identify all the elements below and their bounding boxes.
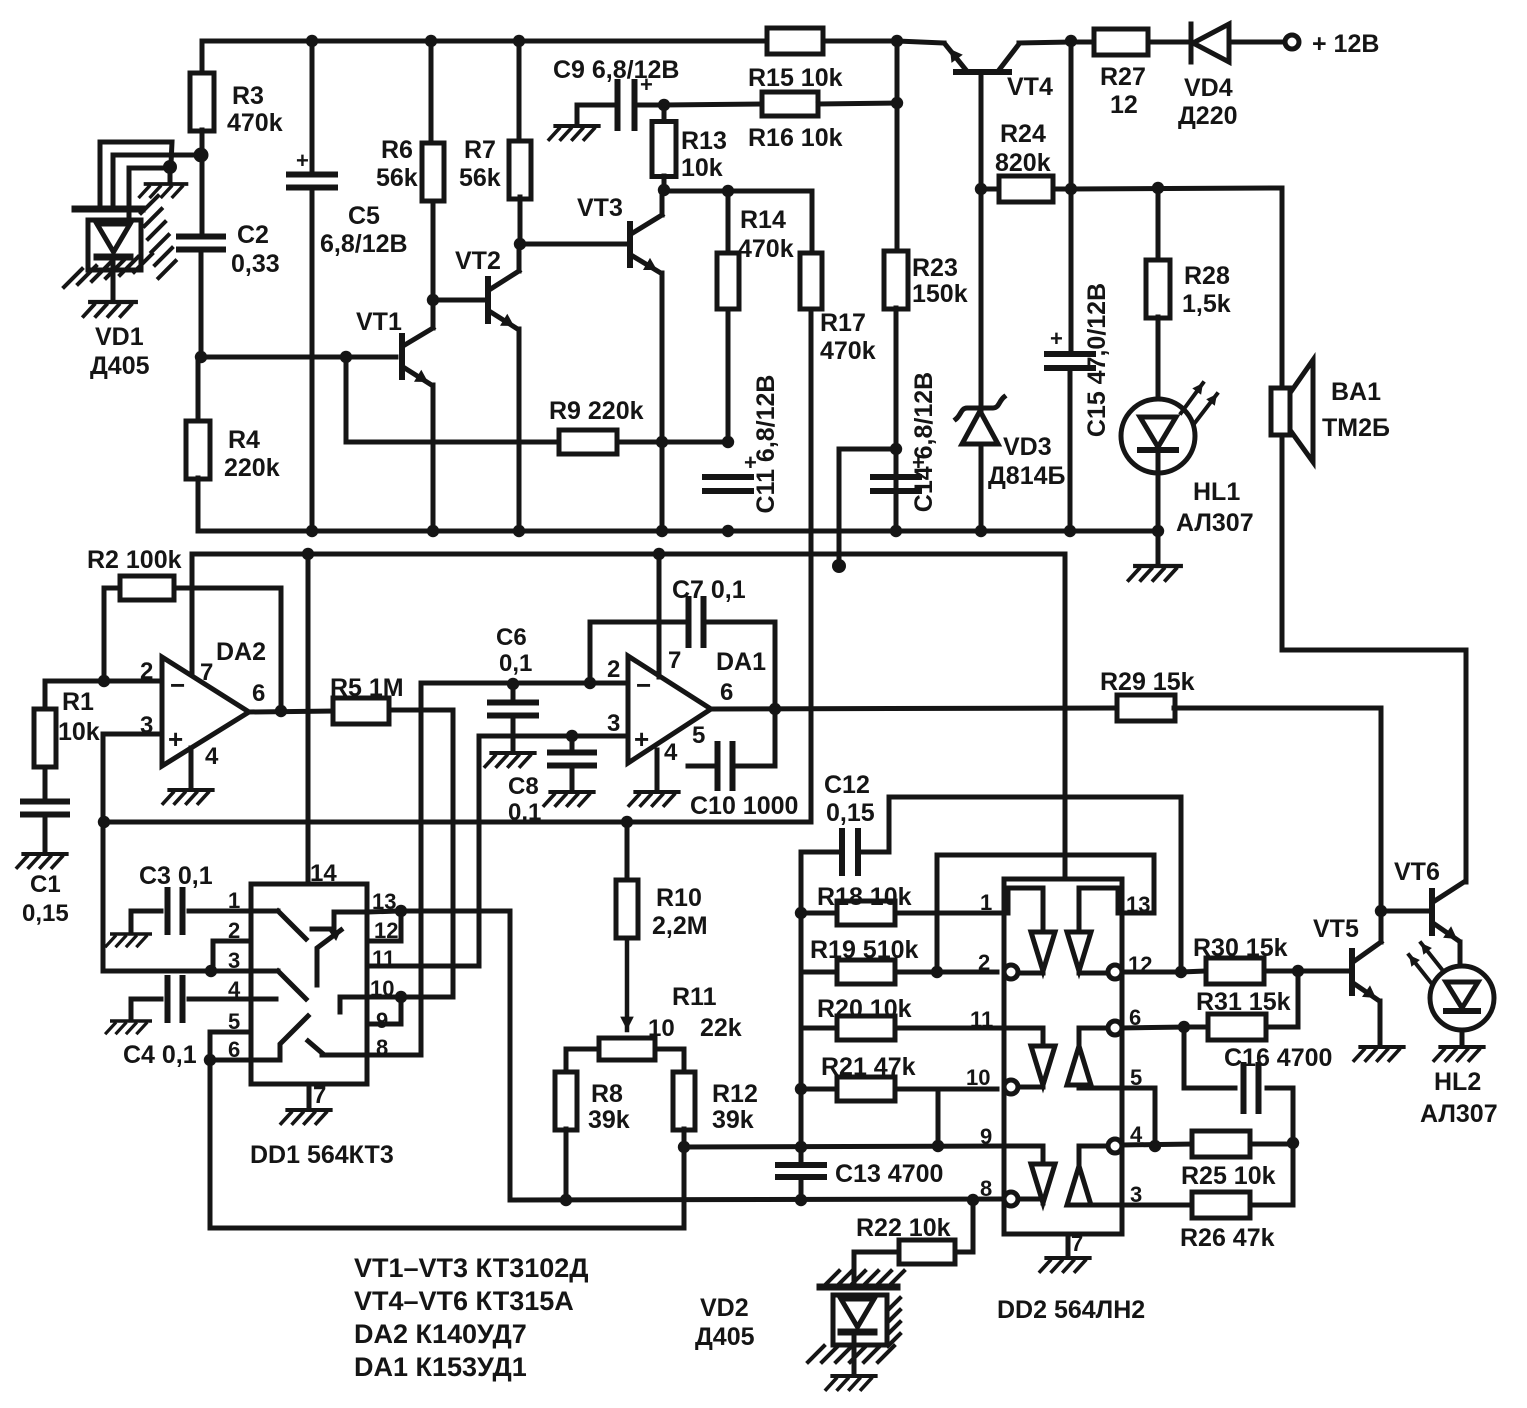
shield bracket VD1 outer <box>100 142 172 207</box>
ground C3 <box>106 934 150 946</box>
svg-text:C12: C12 <box>824 771 870 799</box>
bubble pin6 DD2 <box>1108 1021 1122 1035</box>
wire DD1 pin13 out <box>367 911 399 912</box>
svg-text:R20 10k: R20 10k <box>817 995 912 1023</box>
svg-text:+ 12В: + 12В <box>1312 30 1379 58</box>
svg-text:VD3: VD3 <box>1003 433 1052 461</box>
svg-text:HL2: HL2 <box>1434 1068 1481 1096</box>
capacitor C7 <box>590 622 684 683</box>
wire R13 to VT3 collector <box>662 176 667 190</box>
wire DD1 pin5 jog <box>210 1032 251 1059</box>
resistor R1 <box>43 681 48 709</box>
svg-text:DA1: DA1 <box>716 648 766 676</box>
wire R31 to VT5 base node <box>1296 971 1301 1027</box>
capacitor C12 <box>839 831 845 873</box>
wire col480 down to DD1 pin 11 <box>477 736 482 966</box>
wire C9 to R13 top <box>635 103 664 108</box>
bubble pin8 DD2 <box>1004 1192 1018 1206</box>
wire top rail R15 to VT4 <box>824 39 897 44</box>
svg-text:0,15: 0,15 <box>826 799 875 827</box>
svg-text:DD1 564КТ3: DD1 564КТ3 <box>250 1141 394 1169</box>
wire VD4 to +12V terminal <box>1229 40 1284 45</box>
junction C6 top <box>507 678 519 690</box>
ground VD1 shield <box>140 184 187 197</box>
junction R10 top <box>621 816 633 828</box>
svg-text:C6: C6 <box>496 624 527 651</box>
transistor VT6 <box>1429 891 1435 933</box>
svg-text:2: 2 <box>978 950 990 975</box>
svg-text:C10 1000: C10 1000 <box>690 792 798 820</box>
junction R21 left <box>795 1083 807 1095</box>
svg-text:C13 4700: C13 4700 <box>835 1160 943 1188</box>
svg-text:10k: 10k <box>58 718 100 746</box>
wire VT3 emitter down <box>660 273 665 531</box>
wire DD1 pin8 out <box>367 1053 421 1058</box>
resistor R19 <box>801 970 837 975</box>
junction bus VT3 <box>656 525 668 537</box>
resistor R20 <box>801 1026 837 1031</box>
svg-text:10k: 10k <box>681 154 723 182</box>
svg-text:4: 4 <box>228 977 241 1002</box>
svg-text:R27: R27 <box>1100 63 1146 91</box>
wire pins13 12 to lower bus <box>401 911 510 1200</box>
wire R4 to ground bus <box>196 478 201 531</box>
wire DD1 pin14 <box>306 822 311 884</box>
capacitor C11 (electrolytic) <box>705 474 751 480</box>
svg-text:VD2: VD2 <box>700 1294 749 1322</box>
svg-text:2: 2 <box>607 656 620 683</box>
wire DA1 pin3 input <box>479 734 628 739</box>
svg-text:R17: R17 <box>820 309 866 337</box>
wire DA2 pin3 input <box>103 732 162 737</box>
svg-text:C11 6,8/12В: C11 6,8/12В <box>752 375 780 514</box>
wire DD1 pin11 out <box>367 964 479 969</box>
wire speaker top <box>1280 188 1285 388</box>
junction VT3 emitter R9 <box>656 436 668 448</box>
capacitor C10 <box>688 764 713 769</box>
wire R14 to C11 <box>726 309 731 442</box>
junction DA2 output <box>275 705 287 717</box>
svg-text:АЛ307: АЛ307 <box>1176 509 1254 537</box>
junction rail R6 <box>425 35 437 47</box>
svg-text:АЛ307: АЛ307 <box>1420 1100 1498 1128</box>
inverter 6 DD2 (up) <box>1067 1166 1091 1205</box>
resistor R30 <box>1181 971 1206 972</box>
potentiometer R11 <box>599 1038 655 1060</box>
wire R12 node to DD2 pin9 <box>684 1146 1004 1147</box>
svg-text:470k: 470k <box>227 109 283 137</box>
svg-text:1,5k: 1,5k <box>1182 290 1231 318</box>
junction C13 lower bus <box>795 1194 807 1206</box>
resistor R17 <box>810 191 815 253</box>
wire 188 node to speaker <box>1071 188 1282 189</box>
wire DD1 pin9 jog <box>367 997 401 1024</box>
resistor R3 <box>200 41 205 74</box>
junction rail R7 <box>513 35 525 47</box>
junction C8 top <box>566 730 578 742</box>
svg-text:R23: R23 <box>912 254 958 282</box>
wire VT2 base <box>433 298 488 303</box>
zener diode VD3 <box>962 411 998 444</box>
ground C4 <box>106 1021 150 1033</box>
resistor R18 <box>801 911 837 916</box>
junction top rail R23 column <box>891 35 903 47</box>
ground VD2 <box>826 1376 876 1390</box>
svg-text:VT4: VT4 <box>1007 73 1053 101</box>
wire C2 to base node <box>199 250 204 356</box>
svg-text:C9 6,8/12В: C9 6,8/12В <box>553 56 679 84</box>
wire col938 up <box>936 1089 941 1146</box>
svg-text:4: 4 <box>205 743 219 770</box>
svg-text:8: 8 <box>980 1176 992 1201</box>
svg-text:7: 7 <box>668 647 681 674</box>
diode VD4 <box>1189 24 1194 62</box>
wire HL1 to ground bus <box>1156 473 1161 531</box>
junction C13 top <box>795 1141 807 1153</box>
resistor R13 <box>662 105 667 122</box>
svg-text:VT1–VT3 КТ3102Д: VT1–VT3 КТ3102Д <box>354 1253 589 1283</box>
wire VT6 emitter to HL2 <box>1458 942 1463 966</box>
wire VT3 collector node to R17 <box>664 189 812 194</box>
svg-text:C3 0,1: C3 0,1 <box>139 862 213 890</box>
svg-text:6: 6 <box>252 680 265 707</box>
wire R5 node up to DA1 pin2 wire <box>421 683 511 710</box>
resistor R24 <box>981 187 999 192</box>
wire R29 to VT5 collector <box>1174 708 1381 911</box>
svg-text:C1: C1 <box>30 871 61 898</box>
wire col421 down to DD1 pin 8 <box>419 710 424 1055</box>
wire R5 right node <box>389 708 453 713</box>
svg-text:C5: C5 <box>348 202 380 230</box>
svg-text:9: 9 <box>980 1124 992 1149</box>
wire DA2 pin4 ground <box>189 748 194 786</box>
svg-text:R22 10k: R22 10k <box>856 1214 951 1242</box>
photodiode VD2 <box>820 1284 897 1291</box>
junction VT5 base node <box>1292 965 1304 977</box>
junction DD1 pins 10 9 <box>395 991 407 1003</box>
IC DD1 box <box>251 884 367 1084</box>
svg-text:R29 15k: R29 15k <box>1100 668 1195 696</box>
svg-text:5: 5 <box>228 1009 240 1034</box>
resistor R28 <box>1156 188 1161 261</box>
svg-text:Д405: Д405 <box>695 1323 755 1351</box>
bubble pin12 DD2 <box>1108 965 1122 979</box>
terminal +12V <box>1285 35 1299 49</box>
wire DA2 pin7 column <box>190 588 195 676</box>
svg-text:0,1: 0,1 <box>499 650 532 677</box>
junction VT1 collector VT2 base <box>427 294 439 306</box>
capacitor C1 <box>23 799 67 805</box>
svg-text:VD1: VD1 <box>95 323 144 351</box>
capacitor C5 (electrolytic) <box>310 41 315 174</box>
wire VT5 emitter ground <box>1378 1001 1383 1043</box>
wire R11 right to R12 <box>655 1049 684 1073</box>
svg-text:+: + <box>296 148 309 173</box>
switch 4 DD1 interior <box>251 1016 308 1060</box>
junction DA1 output C7 C10 <box>769 703 781 715</box>
node blob <box>832 559 846 573</box>
transistor VT4 <box>956 69 1009 75</box>
svg-text:Д220: Д220 <box>1178 102 1238 130</box>
resistor R5 <box>333 698 389 724</box>
junction VT1 base node <box>195 351 207 363</box>
svg-text:C2: C2 <box>237 221 269 249</box>
junction R18 left <box>795 907 807 919</box>
junction C14 top <box>890 443 902 455</box>
wire col307 down <box>306 554 311 822</box>
capacitor C16 <box>1184 1027 1235 1088</box>
wire VT3 base <box>520 242 630 247</box>
junction bus R23 <box>890 525 902 537</box>
wire DD1 pin3 <box>211 969 251 974</box>
wire DD2 pin3 to R26 <box>1122 1203 1192 1208</box>
svg-text:4: 4 <box>664 739 678 766</box>
resistor R22 <box>955 1200 973 1252</box>
svg-text:C4 0,1: C4 0,1 <box>123 1041 197 1069</box>
wire VT2 emitter to ground bus <box>517 329 522 531</box>
junction mid rail DA1 pin7 <box>653 548 665 560</box>
svg-text:VT5: VT5 <box>1313 915 1359 943</box>
svg-text:R25 10k: R25 10k <box>1181 1162 1276 1190</box>
svg-text:39k: 39k <box>712 1106 754 1134</box>
svg-text:R26 47k: R26 47k <box>1180 1224 1275 1252</box>
op-amp DA2 <box>162 657 249 766</box>
ground HL2 <box>1434 1047 1484 1061</box>
svg-text:C7 0,1: C7 0,1 <box>672 576 746 604</box>
wire pin2 wire to DA1 <box>513 681 628 686</box>
capacitor C14 (electrolytic) <box>873 474 919 480</box>
capacitor C13 <box>799 1147 804 1164</box>
wire bus ground stem <box>1156 531 1161 562</box>
capacitor C4 <box>131 999 161 1017</box>
svg-text:13: 13 <box>1126 892 1150 917</box>
wire R3 to C2 <box>200 130 205 235</box>
svg-text:56k: 56k <box>376 164 418 192</box>
wire +12V top rail left segment <box>202 39 766 44</box>
switch 3 DD1 interior stub <box>251 997 276 1002</box>
junction DD1 pins 2 3 <box>205 965 217 977</box>
resistor R27 <box>1094 29 1148 55</box>
transistor VT1 <box>399 336 405 377</box>
junction mid rail col307 <box>302 548 314 560</box>
IC DD2 box <box>1004 879 1122 1234</box>
wire lower ground bus <box>510 1199 1004 1200</box>
wire R27 to VD4 <box>1148 40 1191 45</box>
svg-text:C8: C8 <box>508 773 539 800</box>
wire DA1 pin4 ground <box>655 750 660 788</box>
hatching VD2 right <box>888 1298 900 1310</box>
bubble pin4 DD2 <box>1108 1139 1122 1153</box>
svg-text:56k: 56k <box>459 164 501 192</box>
junction VT5 collector <box>1375 905 1387 917</box>
junction bus VT1 <box>427 525 439 537</box>
svg-text:14: 14 <box>310 860 337 887</box>
svg-text:R8: R8 <box>591 1080 623 1108</box>
capacitor C6 <box>511 684 516 702</box>
junction bus VD3 <box>975 525 987 537</box>
hatching VD1 lower left <box>64 269 82 287</box>
svg-text:−: − <box>636 670 651 700</box>
svg-text:3: 3 <box>228 948 240 973</box>
junction VD1 shield ground <box>163 160 177 174</box>
wire pin6 bubble to node <box>1122 1027 1184 1028</box>
wire R17 down to mid rail <box>809 309 814 822</box>
hatching VD1 case <box>141 196 158 213</box>
wire rail to R27 <box>1071 40 1094 45</box>
junction DD2 pin6 node <box>1178 1021 1190 1033</box>
ground C9 <box>549 126 599 140</box>
svg-text:820k: 820k <box>995 149 1051 177</box>
ground VD1 <box>84 302 136 316</box>
svg-text:R12: R12 <box>712 1080 758 1108</box>
resistor R9 <box>346 357 557 442</box>
svg-text:9: 9 <box>376 1008 388 1033</box>
resistor R10 <box>625 822 630 881</box>
wire VT4 base to VD3 <box>979 188 984 531</box>
junction top rail right column <box>1065 35 1077 47</box>
svg-text:R11: R11 <box>672 983 717 1011</box>
svg-text:7: 7 <box>1071 1231 1083 1256</box>
wire pins10 9 to col452 <box>401 995 453 1000</box>
svg-text:R1: R1 <box>62 688 94 716</box>
junction bus C5 <box>306 525 318 537</box>
ground DD2 pin7 <box>1040 1258 1090 1272</box>
svg-text:220k: 220k <box>224 454 280 482</box>
wire DD1 pin2 jog <box>213 941 251 971</box>
wire middle common rail <box>104 820 811 825</box>
svg-text:VD4: VD4 <box>1184 74 1233 102</box>
resistor R23 <box>895 41 900 252</box>
wire col452 down to DD1 pins 9 10 <box>451 710 456 997</box>
svg-text:R21 47k: R21 47k <box>821 1053 916 1081</box>
inverter 5 DD2 <box>1031 1164 1055 1203</box>
svg-text:DD2 564ЛН2: DD2 564ЛН2 <box>997 1296 1145 1324</box>
junction R25 right <box>1287 1137 1299 1149</box>
wire R1 to C1 <box>43 767 48 800</box>
speaker BA1 <box>1271 388 1290 435</box>
photodiode VD1 <box>113 153 201 158</box>
capacitor C9 <box>615 82 621 128</box>
svg-text:BA1: BA1 <box>1331 378 1381 406</box>
svg-text:R19 510k: R19 510k <box>810 936 919 964</box>
wire R12 to node <box>682 1129 687 1147</box>
ground DD1 pin7 <box>281 1110 331 1124</box>
op-amp DA1 <box>628 656 711 763</box>
capacitor C3 <box>131 911 161 930</box>
svg-text:22k: 22k <box>700 1014 742 1042</box>
wire C1 to ground <box>43 815 48 850</box>
inverter 2 DD2 <box>1067 932 1091 971</box>
wire col801 R21 down <box>799 1089 804 1147</box>
wire pin2 to pin13 over route <box>937 855 1154 972</box>
svg-text:1: 1 <box>980 890 992 915</box>
ground C6 <box>485 753 534 767</box>
resistor R2 <box>104 588 120 681</box>
ground C8 <box>544 792 594 806</box>
svg-text:0,15: 0,15 <box>22 900 69 927</box>
svg-text:10: 10 <box>966 1065 990 1090</box>
junction R19 right <box>931 966 943 978</box>
svg-text:VT2: VT2 <box>455 247 501 275</box>
junction R9 riser <box>340 351 352 363</box>
junction R28 top <box>1152 182 1164 194</box>
resistor R29 <box>1117 695 1175 721</box>
wire HL2 to ground <box>1460 1030 1465 1043</box>
svg-text:150k: 150k <box>912 280 968 308</box>
shield bracket VD1 inner to ground <box>129 168 170 220</box>
svg-text:DA2 К140УД7: DA2 К140УД7 <box>354 1319 527 1349</box>
wire ground bus <box>198 529 1158 534</box>
junction R3 VD1 node <box>194 148 209 163</box>
wire pin4 bubble to R25 <box>1122 1144 1192 1145</box>
wire col801 R20 to R21 <box>799 1028 804 1089</box>
wire R19 right to DD2 pin2 <box>937 970 997 975</box>
wire R28 to HL1 <box>1156 317 1161 400</box>
junction DD2 pin4 node <box>1149 1140 1161 1152</box>
resistor R6 <box>429 41 434 145</box>
inverter 3 DD2 <box>1031 1046 1055 1085</box>
wire VT1 emitter to ground bus <box>431 385 436 531</box>
resistor R25 <box>1192 1131 1250 1157</box>
transistor VT5 <box>1349 951 1355 993</box>
svg-text:2,2M: 2,2M <box>652 912 708 940</box>
svg-text:R28: R28 <box>1184 262 1230 290</box>
wire DD1 pin6 to R12 bottom <box>210 1060 684 1228</box>
bubble pin10 DD2 <box>1004 1080 1018 1094</box>
svg-text:R7: R7 <box>464 136 496 164</box>
wire pin12 bubble to node <box>1122 970 1181 975</box>
inverter 1 DD2 <box>1031 932 1055 971</box>
wire DD1 pin7 ground <box>307 1084 312 1106</box>
capacitor C15 (electrolytic) <box>1047 351 1093 357</box>
wire right column rail to C15 <box>1069 41 1074 352</box>
wire DA2 pin7 drop <box>190 554 195 588</box>
svg-text:+: + <box>1050 326 1063 351</box>
wire DD2 pin7 ground <box>1066 1234 1071 1254</box>
svg-text:R31 15k: R31 15k <box>1196 988 1291 1016</box>
interior stub pin10 DD1 <box>340 997 367 1012</box>
svg-text:VT1: VT1 <box>356 308 402 336</box>
svg-text:7: 7 <box>313 1082 326 1109</box>
wire VT5 collector to VT6 base <box>1381 909 1432 914</box>
svg-text:0,33: 0,33 <box>231 250 280 278</box>
wire R2 to output loop <box>174 588 281 710</box>
wire R6 to VT1 collector node <box>431 201 436 300</box>
junction VT3 base node <box>514 238 526 250</box>
svg-text:6: 6 <box>720 679 733 706</box>
wire R11 left to R8 <box>566 1049 599 1073</box>
svg-text:+: + <box>634 724 649 754</box>
svg-text:R2 100k: R2 100k <box>87 546 182 574</box>
svg-text:HL1: HL1 <box>1193 478 1240 506</box>
wire R23 to C14 node <box>894 308 899 531</box>
wire C12 right feedback loop <box>858 797 1181 971</box>
wire R10 to R11 wiper with arrow <box>625 938 630 1030</box>
svg-text:VT3: VT3 <box>577 194 623 222</box>
transistor VT3 <box>627 224 633 265</box>
capacitor C2 <box>179 234 223 240</box>
wire speaker bottom to VT6 collector <box>1282 435 1466 882</box>
svg-text:R16 10k: R16 10k <box>748 124 843 152</box>
svg-text:R6: R6 <box>381 136 413 164</box>
resistor R7 <box>517 41 522 143</box>
wire C15 to ground bus <box>1068 368 1073 531</box>
svg-text:470k: 470k <box>820 337 876 365</box>
wire R7 to VT3 base node <box>518 197 523 243</box>
junction DD1 pins 13 12 <box>395 905 407 917</box>
wire R22 to VD2 <box>852 1252 857 1285</box>
svg-text:R10: R10 <box>656 884 702 912</box>
